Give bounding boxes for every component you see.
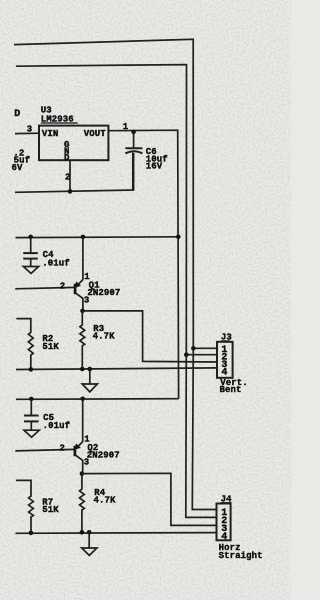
- node Q1 collector junction: [80, 309, 85, 314]
- ground below C5: [24, 430, 39, 437]
- svg-text:51K: 51K: [42, 505, 59, 515]
- svg-text:16V: 16V: [146, 162, 163, 172]
- wire J3 pin2: [186, 354, 217, 356]
- capacitor C4: [28, 235, 33, 240]
- resistor R3: [80, 311, 85, 369]
- regulator U3 box: [39, 126, 108, 161]
- Q2 base bar: [74, 446, 77, 457]
- svg-text:2: 2: [60, 282, 66, 292]
- wire top outer + right vertical to J4 pin1: [14, 39, 217, 509]
- svg-text:.01uf: .01uf: [42, 258, 70, 268]
- Q1 collector: [75, 293, 83, 311]
- wire Q1 base: [15, 287, 75, 288]
- svg-text:4.7K: 4.7K: [93, 331, 116, 341]
- svg-text:2: 2: [60, 444, 66, 454]
- wire stage2 supply: [16, 398, 179, 401]
- wire J3 pin1: [193, 347, 217, 349]
- node U3 pin2 junction: [68, 189, 73, 194]
- node C6 top junction: [131, 130, 136, 135]
- Q1 base bar: [74, 284, 77, 295]
- wire stage1 ground rail: [16, 368, 217, 370]
- wire gnd rail U3/C6: [15, 153, 133, 193]
- Q1 emitter arrow: [78, 280, 83, 285]
- transistor Q1: [81, 235, 86, 240]
- svg-text:4.7K: 4.7K: [94, 495, 117, 505]
- resistor R2: [16, 319, 33, 370]
- capacitor C5: [29, 397, 34, 402]
- wire U3 pin2 GND down: [69, 160, 71, 192]
- svg-text:6V: 6V: [12, 163, 24, 173]
- svg-text:D: D: [14, 109, 20, 120]
- node supply1 to VOUT vertical: [176, 235, 181, 240]
- transistor Q2: [80, 397, 85, 402]
- resistor R7: [16, 480, 33, 532]
- svg-text:VOUT: VOUT: [84, 129, 107, 139]
- wire Q2 collector to J4 pin3: [82, 473, 217, 525]
- svg-text:Bent: Bent: [220, 385, 242, 395]
- svg-text:4: 4: [221, 368, 227, 379]
- svg-text:2N2907: 2N2907: [87, 450, 120, 460]
- wire top inner + right vertical to J4 pin2: [16, 65, 217, 518]
- ground below C4: [23, 267, 38, 274]
- wire Q2 base: [15, 449, 75, 451]
- svg-text:4: 4: [221, 532, 227, 543]
- svg-text:D: D: [64, 153, 70, 163]
- svg-text:51K: 51K: [42, 342, 59, 352]
- svg-text:.01uf: .01uf: [43, 421, 71, 431]
- svg-text:Straight: Straight: [219, 551, 263, 561]
- wire stage2 ground rail: [16, 532, 217, 535]
- ground stage2: [88, 532, 90, 548]
- svg-text:2N2907: 2N2907: [87, 288, 120, 298]
- wire stage1 supply: [16, 236, 179, 239]
- svg-text:VIN: VIN: [42, 129, 59, 139]
- Q2 collector: [75, 455, 83, 474]
- capacitor C6: [133, 130, 135, 148]
- underline LM2936: [41, 122, 78, 124]
- resistor R4: [80, 474, 85, 533]
- ground stage1: [89, 369, 91, 384]
- wire U3 pin3 input: [15, 132, 39, 134]
- Q2 emitter arrow: [78, 442, 83, 447]
- wire U3 pin1 VOUT to right vertical: [108, 130, 178, 399]
- wire Q1 collector to J3 pin3: [83, 311, 218, 362]
- node Q2 collector junction: [80, 471, 85, 476]
